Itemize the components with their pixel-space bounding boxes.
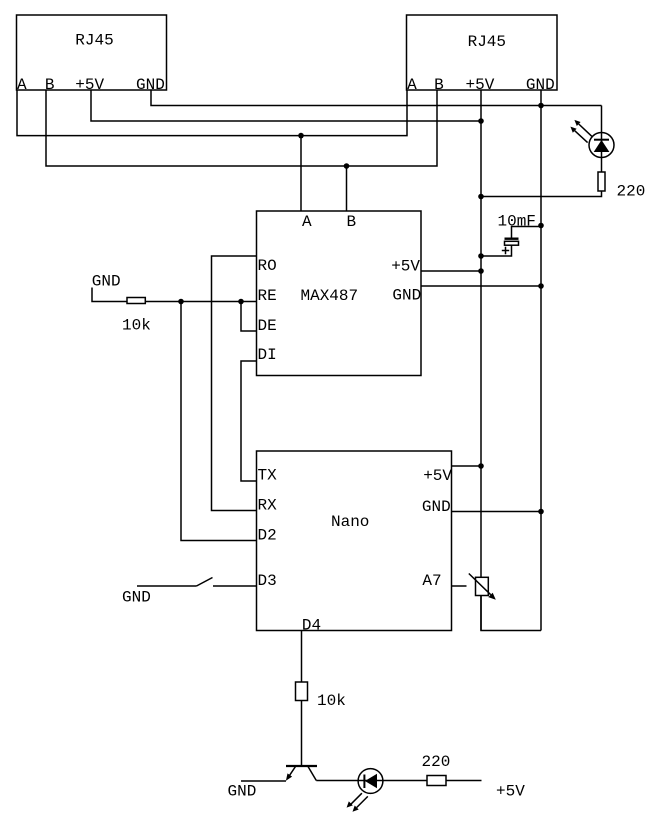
junction C1 top / GND rail [538, 223, 544, 229]
svg-text:MAX487: MAX487 [301, 287, 359, 305]
wire GND bus J1 to LED branch [151, 90, 602, 106]
svg-text:+5V: +5V [496, 783, 525, 801]
wire LED D1 branch vertical [601, 106, 603, 173]
svg-text:GND: GND [122, 589, 151, 607]
wire +5V rail vertical [480, 121, 482, 631]
junction A bus to U1 pin A [298, 133, 304, 139]
wire +5V bus J1 to +5V rail [91, 90, 481, 121]
svg-text:RO: RO [258, 257, 277, 275]
switch S1 blade [197, 578, 213, 587]
wire pot bottom link to GND rail [481, 596, 541, 631]
wire R3 to Q1 base [301, 701, 303, 767]
junction C1 bottom / +5V rail [478, 253, 484, 259]
svg-text:Nano: Nano [331, 513, 369, 531]
wire U2 A7 stub [452, 585, 467, 587]
wire U1 +5V pin to rail [421, 270, 481, 272]
svg-text:RJ45: RJ45 [75, 32, 113, 50]
junction RE net / D2 branch [178, 299, 184, 305]
LED D1 emission arrows [570, 120, 591, 143]
wire A branch to U1 [300, 136, 302, 211]
junction GND bus / GND rail [538, 103, 544, 109]
svg-text:220: 220 [422, 753, 451, 771]
wire U2 +5V pin to rail [452, 465, 482, 467]
svg-text:A7: A7 [422, 572, 441, 590]
svg-text:B: B [347, 213, 357, 231]
junction U2 GND / rail [538, 509, 544, 515]
wire DE loop [241, 302, 257, 332]
svg-text:DI: DI [258, 346, 277, 364]
wire U2 D4 down [301, 631, 303, 683]
LED D2 [358, 769, 383, 794]
svg-text:+5V: +5V [75, 76, 104, 94]
wire J2 +5V pin stub [480, 90, 482, 121]
svg-text:A: A [407, 76, 417, 94]
svg-text:+5V: +5V [391, 258, 420, 276]
wire U1 GND pin to rail [421, 285, 541, 287]
junction U1 GND / rail [538, 283, 544, 289]
potentiometer RV1 [469, 574, 496, 600]
resistor R2 10k [127, 298, 145, 304]
svg-text:GND: GND [92, 273, 121, 291]
wire DI to TX [241, 361, 257, 481]
junction RE net / DE branch [238, 299, 244, 305]
module U2 Nano [257, 451, 453, 635]
wire R1 to +5V rail [481, 191, 602, 197]
svg-text:10k: 10k [317, 692, 346, 710]
svg-text:TX: TX [258, 467, 278, 485]
resistor R1 220 [598, 172, 605, 191]
wire B branch to U1 [346, 166, 348, 211]
svg-text:RJ45: RJ45 [468, 33, 506, 51]
svg-text:RX: RX [258, 497, 278, 515]
svg-text:GND: GND [228, 783, 257, 801]
transistor Q1 [286, 766, 317, 781]
resistor R4 220 [427, 776, 446, 786]
svg-text:10mF: 10mF [498, 213, 536, 231]
wire RE net to D2 [181, 302, 257, 541]
wire emitter to GND [241, 780, 286, 782]
wire B bus J1 to J2 [46, 90, 437, 166]
svg-text:D4: D4 [302, 617, 321, 635]
wire U2 GND pin to rail [452, 511, 542, 513]
svg-text:RE: RE [258, 287, 277, 305]
svg-text:+5V: +5V [423, 467, 452, 485]
svg-text:10k: 10k [122, 317, 151, 335]
capacitor C1 [481, 227, 541, 257]
connector J2 RJ45 right [407, 15, 558, 94]
LED D1 [589, 133, 614, 158]
IC U1 MAX487 [257, 211, 422, 376]
svg-text:GND: GND [422, 498, 451, 516]
wire R4 to +5V [446, 780, 482, 782]
svg-text:+5V: +5V [466, 76, 495, 94]
wire switch to U2 D3 [213, 585, 257, 587]
svg-text:D3: D3 [258, 572, 277, 590]
wire GND rail vertical [540, 106, 542, 631]
svg-text:220: 220 [617, 183, 646, 201]
junction U1 +5V / rail [478, 268, 484, 274]
wire collector to LED D2 [316, 780, 427, 782]
LED D2 emission arrows [347, 793, 368, 812]
wire switch left [137, 585, 197, 587]
wire A bus J1 to J2 [17, 90, 407, 136]
svg-text:D2: D2 [258, 527, 277, 545]
svg-text:DE: DE [258, 317, 277, 335]
svg-text:GND: GND [392, 287, 421, 305]
junction B bus to U1 pin B [344, 163, 350, 169]
junction R1 wire / +5V rail [478, 194, 484, 200]
wire J2 GND pin stub [540, 90, 542, 106]
connector J1 RJ45 left [17, 15, 167, 94]
svg-text:B: B [434, 76, 444, 94]
svg-text:A: A [17, 76, 27, 94]
junction U2 +5V / rail [478, 463, 484, 469]
resistor R3 10k [296, 682, 308, 701]
wire GND tick [92, 288, 127, 302]
junction +5V bus / +5V rail [478, 118, 484, 124]
svg-text:A: A [302, 213, 312, 231]
wire R2 to U1 RE pin [145, 301, 256, 303]
wire RO to RX [212, 256, 257, 511]
